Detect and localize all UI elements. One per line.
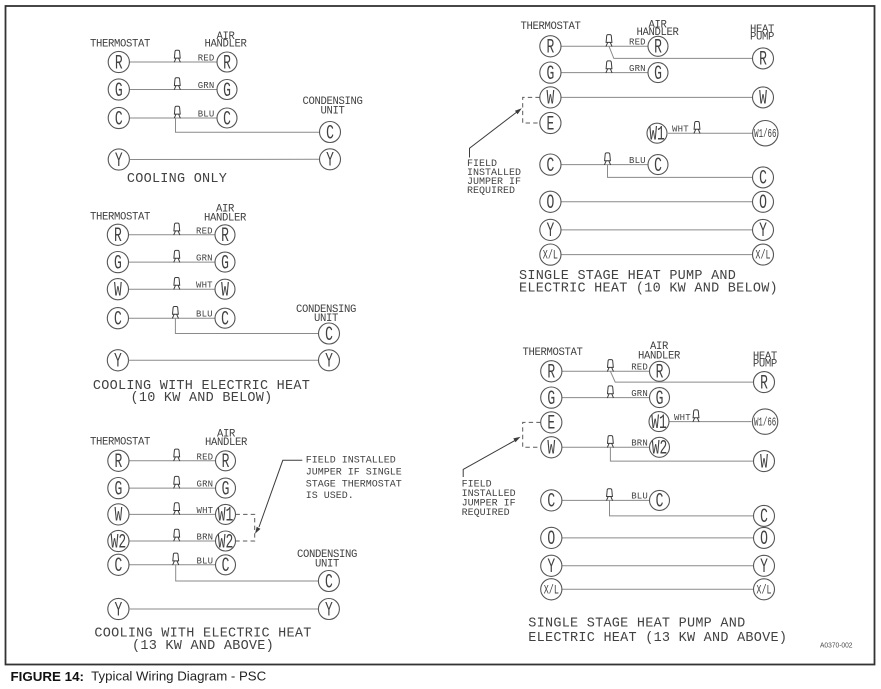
d5 wire nut W row	[607, 436, 614, 448]
d4 branch wire R to heat pump	[609, 46, 753, 58]
svg-text:FIELD INSTALLED: FIELD INSTALLED	[306, 456, 396, 467]
svg-text:R: R	[222, 452, 230, 475]
d2 wire W row	[129, 288, 216, 290]
d1 caption COOLING ONLY	[127, 172, 227, 187]
svg-text:G: G	[114, 479, 122, 502]
d3 thermostat C	[108, 554, 129, 578]
d5 branch wire W to heat pump	[610, 447, 753, 461]
d4 wire R row RED	[561, 45, 648, 47]
d3 wire nut W row	[173, 503, 180, 515]
d3 condensing unit C	[318, 571, 339, 595]
d1 wire nut C row	[174, 106, 181, 118]
svg-text:C: C	[656, 491, 664, 514]
d4 thermostat header	[520, 21, 580, 33]
d2 wire C row	[129, 317, 216, 319]
svg-text:G: G	[115, 80, 123, 103]
svg-text:W: W	[759, 88, 767, 111]
d3 wire R row	[129, 460, 216, 462]
svg-text:O: O	[546, 193, 554, 216]
diagram 1: COOLING ONLY	[90, 31, 363, 187]
svg-text:THERMOSTAT: THERMOSTAT	[522, 347, 582, 359]
d2 thermostat R	[107, 224, 128, 248]
d2 wire G row	[129, 261, 216, 263]
d2 air handler C	[215, 308, 235, 331]
d2 air handler header	[204, 204, 247, 225]
d3 air handler R	[216, 451, 236, 474]
d5 wire nut R row	[607, 360, 614, 372]
d4 wire G row GRN	[561, 72, 648, 74]
svg-text:FIGURE 14:: FIGURE 14:	[11, 669, 85, 684]
d5 wire Y row	[562, 565, 754, 567]
d5 air handler G	[650, 388, 670, 411]
svg-text:C: C	[325, 572, 333, 595]
d5 heat pump O	[754, 527, 775, 551]
svg-text:W: W	[114, 280, 122, 303]
d5 air handler C	[650, 490, 670, 513]
d5 thermostat C	[541, 490, 562, 514]
d1 thermostat header	[90, 39, 150, 51]
svg-text:THERMOSTAT: THERMOSTAT	[520, 21, 580, 33]
svg-text:UNIT: UNIT	[320, 105, 344, 117]
svg-text:WHT: WHT	[672, 124, 689, 134]
d5 branch wire R to heat pump	[610, 371, 753, 382]
svg-text:THERMOSTAT: THERMOSTAT	[90, 211, 150, 223]
svg-text:C: C	[654, 155, 662, 178]
d5 wire R row RED	[562, 370, 650, 372]
svg-text:WHT: WHT	[196, 506, 213, 516]
d5 thermostat R	[541, 361, 562, 385]
svg-text:G: G	[547, 388, 555, 411]
d3 wire nut W2 row	[173, 529, 180, 541]
svg-text:X/L: X/L	[756, 584, 771, 598]
d2 thermostat Y	[107, 350, 128, 374]
d4 heat pump R	[753, 48, 774, 72]
d4 note field installed jumper	[467, 159, 521, 197]
svg-text:(13 KW AND ABOVE): (13 KW AND ABOVE)	[132, 639, 274, 654]
d5 wire X/L row	[562, 588, 754, 590]
svg-text:R: R	[654, 37, 662, 60]
d2 wire nut G row	[173, 250, 180, 262]
svg-text:C: C	[546, 155, 554, 178]
svg-text:O: O	[547, 529, 555, 552]
svg-text:HANDLER: HANDLER	[638, 350, 681, 362]
d1 thermostat C	[108, 107, 129, 131]
d1 condensing unit C	[320, 122, 341, 146]
d5 wire O row	[562, 537, 754, 539]
d3 wire nut G row	[173, 476, 180, 488]
svg-text:R: R	[760, 373, 768, 396]
svg-text:G: G	[223, 80, 231, 103]
svg-text:W: W	[760, 452, 768, 475]
d1 air handler G	[217, 80, 237, 103]
d1 wire G row	[129, 89, 217, 91]
d4 air handler G	[648, 63, 668, 86]
svg-text:C: C	[547, 491, 555, 514]
svg-text:IS USED.: IS USED.	[306, 491, 354, 502]
svg-text:Typical Wiring Diagram - PSC: Typical Wiring Diagram - PSC	[91, 669, 266, 684]
d1 branch wire C to condensing unit	[176, 118, 320, 132]
svg-text:REQUIRED: REQUIRED	[467, 186, 515, 197]
d4 dashed field jumper W to E	[523, 97, 540, 123]
d4 heat pump O	[753, 191, 774, 215]
d2 air handler W	[215, 279, 235, 302]
d4 air handler C	[648, 155, 668, 178]
svg-text:O: O	[760, 529, 768, 552]
d2 wire Y row	[129, 359, 319, 361]
d4 heat pump header	[750, 24, 774, 43]
svg-text:W: W	[114, 505, 122, 528]
d3 wire nut R row	[173, 449, 180, 461]
d5 air handler W1	[649, 412, 669, 435]
d3 wire G row	[129, 487, 216, 489]
svg-text:RED: RED	[196, 226, 213, 236]
d3 thermostat W2	[108, 530, 129, 554]
svg-text:RED: RED	[198, 54, 215, 64]
d2 thermostat header	[90, 211, 150, 223]
svg-text:STAGE THERMOSTAT: STAGE THERMOSTAT	[306, 479, 402, 490]
d4 wire nut W1 row	[694, 122, 701, 134]
d4 air handler header	[636, 20, 679, 40]
d5 air handler R	[650, 361, 670, 384]
svg-text:W: W	[547, 438, 555, 461]
svg-text:W2: W2	[218, 532, 234, 555]
svg-text:(10 KW AND BELOW): (10 KW AND BELOW)	[131, 391, 273, 406]
svg-text:Y: Y	[547, 557, 555, 580]
svg-text:R: R	[114, 452, 122, 475]
d2 thermostat C	[107, 308, 128, 332]
d3 wire W row	[129, 513, 216, 515]
svg-text:GRN: GRN	[196, 480, 213, 490]
svg-text:A0370-002: A0370-002	[820, 640, 853, 649]
d3 wire Y row	[129, 608, 318, 610]
d4 thermostat R	[540, 36, 561, 60]
svg-text:C: C	[325, 324, 333, 347]
d5 branch wire C to heat pump	[610, 500, 754, 516]
d2 wire R row	[129, 234, 216, 236]
d4 wire nut R row	[606, 35, 613, 47]
d3 note field installed jumper	[306, 456, 402, 502]
d5 heat pump R	[754, 372, 775, 396]
svg-text:ELECTRIC HEAT (13 KW AND ABOVE: ELECTRIC HEAT (13 KW AND ABOVE)	[528, 631, 787, 646]
svg-text:RED: RED	[631, 363, 648, 373]
d3 thermostat header	[90, 436, 150, 448]
d4 heat pump C	[753, 167, 774, 191]
svg-text:X/L: X/L	[755, 249, 770, 263]
d3 air handler W2	[216, 531, 236, 554]
svg-text:W2: W2	[652, 438, 668, 461]
svg-text:THERMOSTAT: THERMOSTAT	[90, 436, 150, 448]
d1 wire nut G row	[174, 78, 181, 90]
svg-text:C: C	[114, 309, 122, 332]
svg-text:BLU: BLU	[629, 156, 646, 166]
svg-text:HANDLER: HANDLER	[204, 39, 247, 51]
d2 caption	[93, 379, 310, 406]
svg-text:G: G	[546, 63, 554, 86]
svg-text:WHT: WHT	[196, 281, 213, 291]
d1 air handler R	[217, 52, 237, 75]
svg-text:GRN: GRN	[631, 389, 648, 399]
d4 thermostat E	[540, 112, 561, 136]
d1 wire nut R row	[174, 50, 181, 62]
svg-text:G: G	[654, 63, 662, 86]
d4 caption	[519, 269, 778, 297]
d3 caption	[94, 627, 311, 654]
d4 thermostat O	[540, 191, 561, 215]
svg-text:C: C	[114, 556, 122, 579]
d3 dashed field jumper W1 to W2	[236, 514, 255, 541]
svg-text:WHT: WHT	[674, 413, 691, 423]
d5 thermostat X/L	[541, 579, 562, 600]
d1 wire R row	[129, 61, 217, 63]
svg-text:Y: Y	[115, 150, 123, 173]
svg-text:THERMOSTAT: THERMOSTAT	[90, 39, 150, 51]
d4 heat pump X/L	[753, 244, 774, 265]
svg-text:COOLING ONLY: COOLING ONLY	[127, 172, 227, 187]
svg-text:GRN: GRN	[198, 81, 215, 91]
d1 wire Y row	[129, 158, 319, 160]
svg-text:C: C	[326, 123, 334, 146]
d3 air handler G	[216, 478, 236, 501]
d3 condensing unit Y	[318, 599, 339, 623]
d2 condensing unit Y	[319, 350, 340, 374]
d5 thermostat E	[541, 412, 562, 436]
d1 thermostat R	[108, 51, 129, 75]
svg-text:GRN: GRN	[629, 64, 646, 74]
svg-text:Y: Y	[326, 150, 334, 173]
svg-text:R: R	[546, 37, 554, 60]
svg-text:HANDLER: HANDLER	[205, 437, 248, 449]
svg-text:Y: Y	[325, 351, 333, 374]
d5 thermostat header	[522, 347, 582, 359]
svg-text:C: C	[759, 168, 767, 191]
d4 wire C row BLU	[561, 164, 648, 166]
d5 wire W row BRN	[562, 446, 650, 448]
d4 thermostat Y	[540, 219, 561, 243]
d1 thermostat Y	[108, 149, 129, 173]
d4 heat pump W	[753, 87, 774, 111]
d1 wire C row	[129, 117, 217, 119]
diagram 5: SINGLE STAGE HEAT PUMP AND ELECTRIC HEAT (13 KW AND ABOVE)	[462, 341, 788, 646]
d5 wire G row GRN	[562, 397, 650, 399]
svg-text:Y: Y	[759, 221, 767, 244]
svg-text:Y: Y	[325, 600, 333, 623]
svg-text:BLU: BLU	[196, 556, 213, 566]
svg-text:E: E	[546, 114, 554, 137]
d2 air handler G	[215, 252, 235, 275]
svg-text:W1: W1	[218, 505, 234, 528]
svg-text:PUMP: PUMP	[750, 32, 774, 44]
d3 branch wire C to condensing unit	[176, 565, 319, 581]
svg-text:SINGLE STAGE HEAT PUMP AND: SINGLE STAGE HEAT PUMP AND	[528, 616, 745, 631]
svg-text:R: R	[221, 226, 229, 249]
svg-text:W: W	[221, 280, 229, 303]
svg-text:Y: Y	[114, 351, 122, 374]
svg-text:R: R	[223, 53, 231, 76]
svg-text:E: E	[547, 413, 555, 436]
d4 wire Y row	[561, 229, 753, 231]
d4 thermostat W	[540, 87, 561, 111]
svg-text:W1/66: W1/66	[754, 416, 776, 429]
svg-text:G: G	[114, 253, 122, 276]
d3 thermostat W	[108, 504, 129, 528]
d4 wire nut C row	[604, 153, 611, 165]
d5 heat pump C	[754, 505, 775, 529]
d2 wire nut C row	[172, 307, 179, 319]
d3 leader arrow to jumper	[255, 460, 302, 534]
d3 wire W2 row	[129, 540, 216, 542]
svg-text:C: C	[115, 109, 123, 132]
svg-text:R: R	[115, 53, 123, 76]
d4 heat pump Y	[753, 219, 774, 243]
d4 wire O row	[561, 201, 753, 203]
d4 heat pump W1/66	[753, 121, 778, 146]
svg-text:UNIT: UNIT	[315, 558, 339, 570]
d4 thermostat X/L	[540, 244, 561, 265]
d5 air handler header	[638, 341, 681, 362]
svg-text:GRN: GRN	[196, 254, 213, 264]
d2 condensing unit header	[296, 304, 356, 325]
d5 heat pump W	[754, 451, 775, 475]
svg-text:W2: W2	[111, 532, 127, 555]
svg-text:Y: Y	[114, 600, 122, 623]
svg-text:REQUIRED: REQUIRED	[462, 508, 510, 519]
d4 thermostat C	[540, 154, 561, 178]
d4 wire W row	[561, 96, 753, 98]
d4 thermostat G	[540, 62, 561, 86]
d1 condensing unit header	[302, 96, 362, 117]
d3 thermostat Y	[108, 598, 129, 622]
svg-text:Y: Y	[760, 557, 768, 580]
d4 air handler W1	[647, 123, 667, 146]
d5 wire nut G row	[607, 386, 614, 398]
svg-text:R: R	[759, 49, 767, 72]
svg-text:R: R	[547, 362, 555, 385]
d2 thermostat G	[107, 252, 128, 276]
svg-text:C: C	[223, 109, 231, 132]
diagram 2: COOLING WITH ELECTRIC HEAT (10 KW AND BELOW)	[90, 204, 356, 406]
d2 condensing unit C	[319, 323, 340, 347]
svg-text:G: G	[656, 388, 664, 411]
d3 thermostat G	[108, 478, 129, 502]
d3 air handler header	[205, 429, 248, 450]
d1 air handler C	[217, 108, 237, 131]
d4 wire X/L row	[561, 254, 753, 256]
d3 air handler C	[216, 555, 236, 578]
svg-text:JUMPER IF SINGLE: JUMPER IF SINGLE	[306, 468, 402, 479]
d2 thermostat W	[107, 279, 128, 303]
d3 air handler W1	[216, 504, 236, 527]
svg-text:W1: W1	[651, 412, 667, 435]
d3 wire C row	[129, 564, 216, 566]
svg-text:W1: W1	[649, 124, 665, 147]
svg-text:R: R	[656, 362, 664, 385]
d4 wire W1 to W1/66 WHT	[668, 132, 753, 134]
d4 wire nut G row	[606, 61, 613, 73]
svg-text:BLU: BLU	[631, 492, 648, 502]
d2 branch wire C to condensing unit	[175, 318, 318, 333]
svg-text:BRN: BRN	[631, 439, 648, 449]
svg-text:BRN: BRN	[196, 533, 213, 543]
d4 air handler R	[648, 36, 668, 59]
svg-text:BLU: BLU	[198, 110, 215, 120]
d5 caption	[528, 616, 787, 646]
d4 branch wire C to heat pump	[608, 165, 753, 178]
d1 thermostat G	[108, 79, 129, 103]
figure caption	[11, 669, 267, 684]
svg-text:HANDLER: HANDLER	[204, 213, 247, 225]
d5 heat pump X/L	[754, 579, 775, 600]
d4 leader arrow to jumper	[470, 108, 522, 157]
d2 wire nut R row	[173, 223, 180, 235]
diagram 3: COOLING WITH ELECTRIC HEAT (13 KW AND ABOVE)	[90, 429, 402, 654]
svg-text:X/L: X/L	[543, 249, 558, 263]
d5 thermostat G	[541, 387, 562, 411]
d5 thermostat Y	[541, 555, 562, 579]
d2 wire nut W row	[173, 278, 180, 290]
d5 wire W1 to W1/66 WHT	[670, 421, 752, 423]
svg-text:C: C	[221, 309, 229, 332]
svg-text:G: G	[222, 479, 230, 502]
d5 air handler W2	[650, 437, 670, 460]
svg-text:C: C	[760, 507, 768, 530]
d3 condensing unit header	[297, 549, 357, 570]
d5 heat pump W1/66	[752, 409, 777, 434]
d5 wire nut C row	[606, 489, 613, 501]
d5 note field installed jumper	[462, 479, 516, 519]
svg-text:BLU: BLU	[196, 310, 213, 320]
d3 thermostat R	[108, 450, 129, 474]
svg-text:G: G	[221, 253, 229, 276]
svg-text:C: C	[222, 556, 230, 579]
svg-text:ELECTRIC HEAT (10 KW AND BELOW: ELECTRIC HEAT (10 KW AND BELOW)	[519, 281, 778, 296]
svg-text:R: R	[114, 226, 122, 249]
d5 dashed field jumper E to W	[523, 422, 541, 447]
d5 leader arrow to jumper	[463, 437, 520, 477]
d3 wire nut C row	[172, 553, 179, 565]
d5 thermostat O	[541, 527, 562, 551]
d5 wire nut W1 row	[693, 410, 700, 422]
svg-text:W: W	[546, 88, 554, 111]
svg-text:X/L: X/L	[544, 584, 559, 598]
svg-text:W1/66: W1/66	[754, 127, 776, 140]
d1 condensing unit Y	[320, 149, 341, 173]
d2 air handler R	[215, 225, 235, 248]
d5 heat pump Y	[754, 555, 775, 579]
svg-text:Y: Y	[546, 221, 554, 244]
d1 air handler header	[204, 31, 247, 51]
svg-text:RED: RED	[196, 452, 213, 462]
diagram 4: SINGLE STAGE HEAT PUMP AND ELECTRIC HEAT (10 KW AND BELOW)	[467, 20, 778, 297]
svg-text:PUMP: PUMP	[753, 359, 777, 371]
svg-text:RED: RED	[629, 38, 646, 48]
d5 heat pump header	[753, 351, 777, 371]
d5 thermostat W	[541, 437, 562, 461]
d5 wire C row BLU	[562, 499, 650, 501]
svg-text:O: O	[759, 193, 767, 216]
